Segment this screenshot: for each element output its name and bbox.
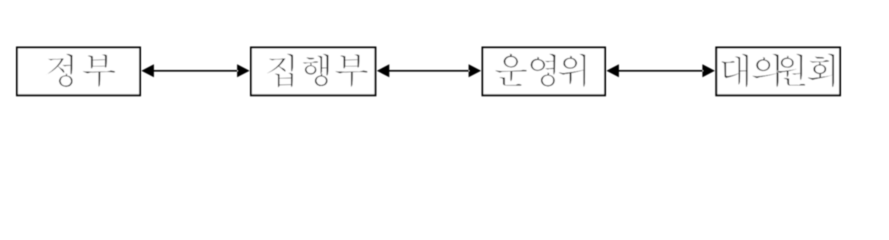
box COUNCIL (대의원회) <box>716 48 840 96</box>
arrow STEER-COUNCIL double-headed <box>606 64 715 77</box>
label COUNCIL 대의원회 <box>721 54 834 88</box>
label EXEC 집행부 <box>267 54 368 88</box>
label GOV 정부 <box>46 54 115 87</box>
arrow EXEC-STEER double-headed <box>377 64 481 77</box>
arrow GOV-EXEC double-headed <box>141 64 249 77</box>
box STEER (운영위) <box>483 48 606 96</box>
box GOV (정부) <box>17 48 140 96</box>
label STEER 운영위 <box>495 54 585 88</box>
box EXEC (집행부) <box>251 48 375 96</box>
